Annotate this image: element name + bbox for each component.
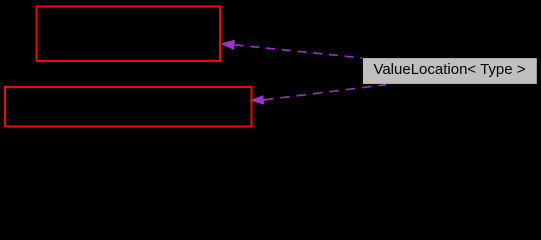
svg-text:ValueLocation< Type >: ValueLocation< Type > xyxy=(373,61,525,78)
edge: usage arrow to box 2 (dashed darkorchid) xyxy=(250,85,386,105)
edge 2 arrowhead xyxy=(250,95,264,105)
edge: usage arrow to box 1 (dashed darkorchid) xyxy=(220,40,362,58)
node: red class box 2 (bottom left, label hidden on black) xyxy=(5,87,252,127)
edge 1 dashed line xyxy=(235,45,363,58)
edge 2 dashed line xyxy=(264,85,386,100)
edge 1 arrowhead xyxy=(220,40,235,50)
node: ValueLocation< Type > (current class, gray fill) xyxy=(363,58,537,84)
node: red class box 1 (top left, label hidden on black) xyxy=(37,6,221,61)
